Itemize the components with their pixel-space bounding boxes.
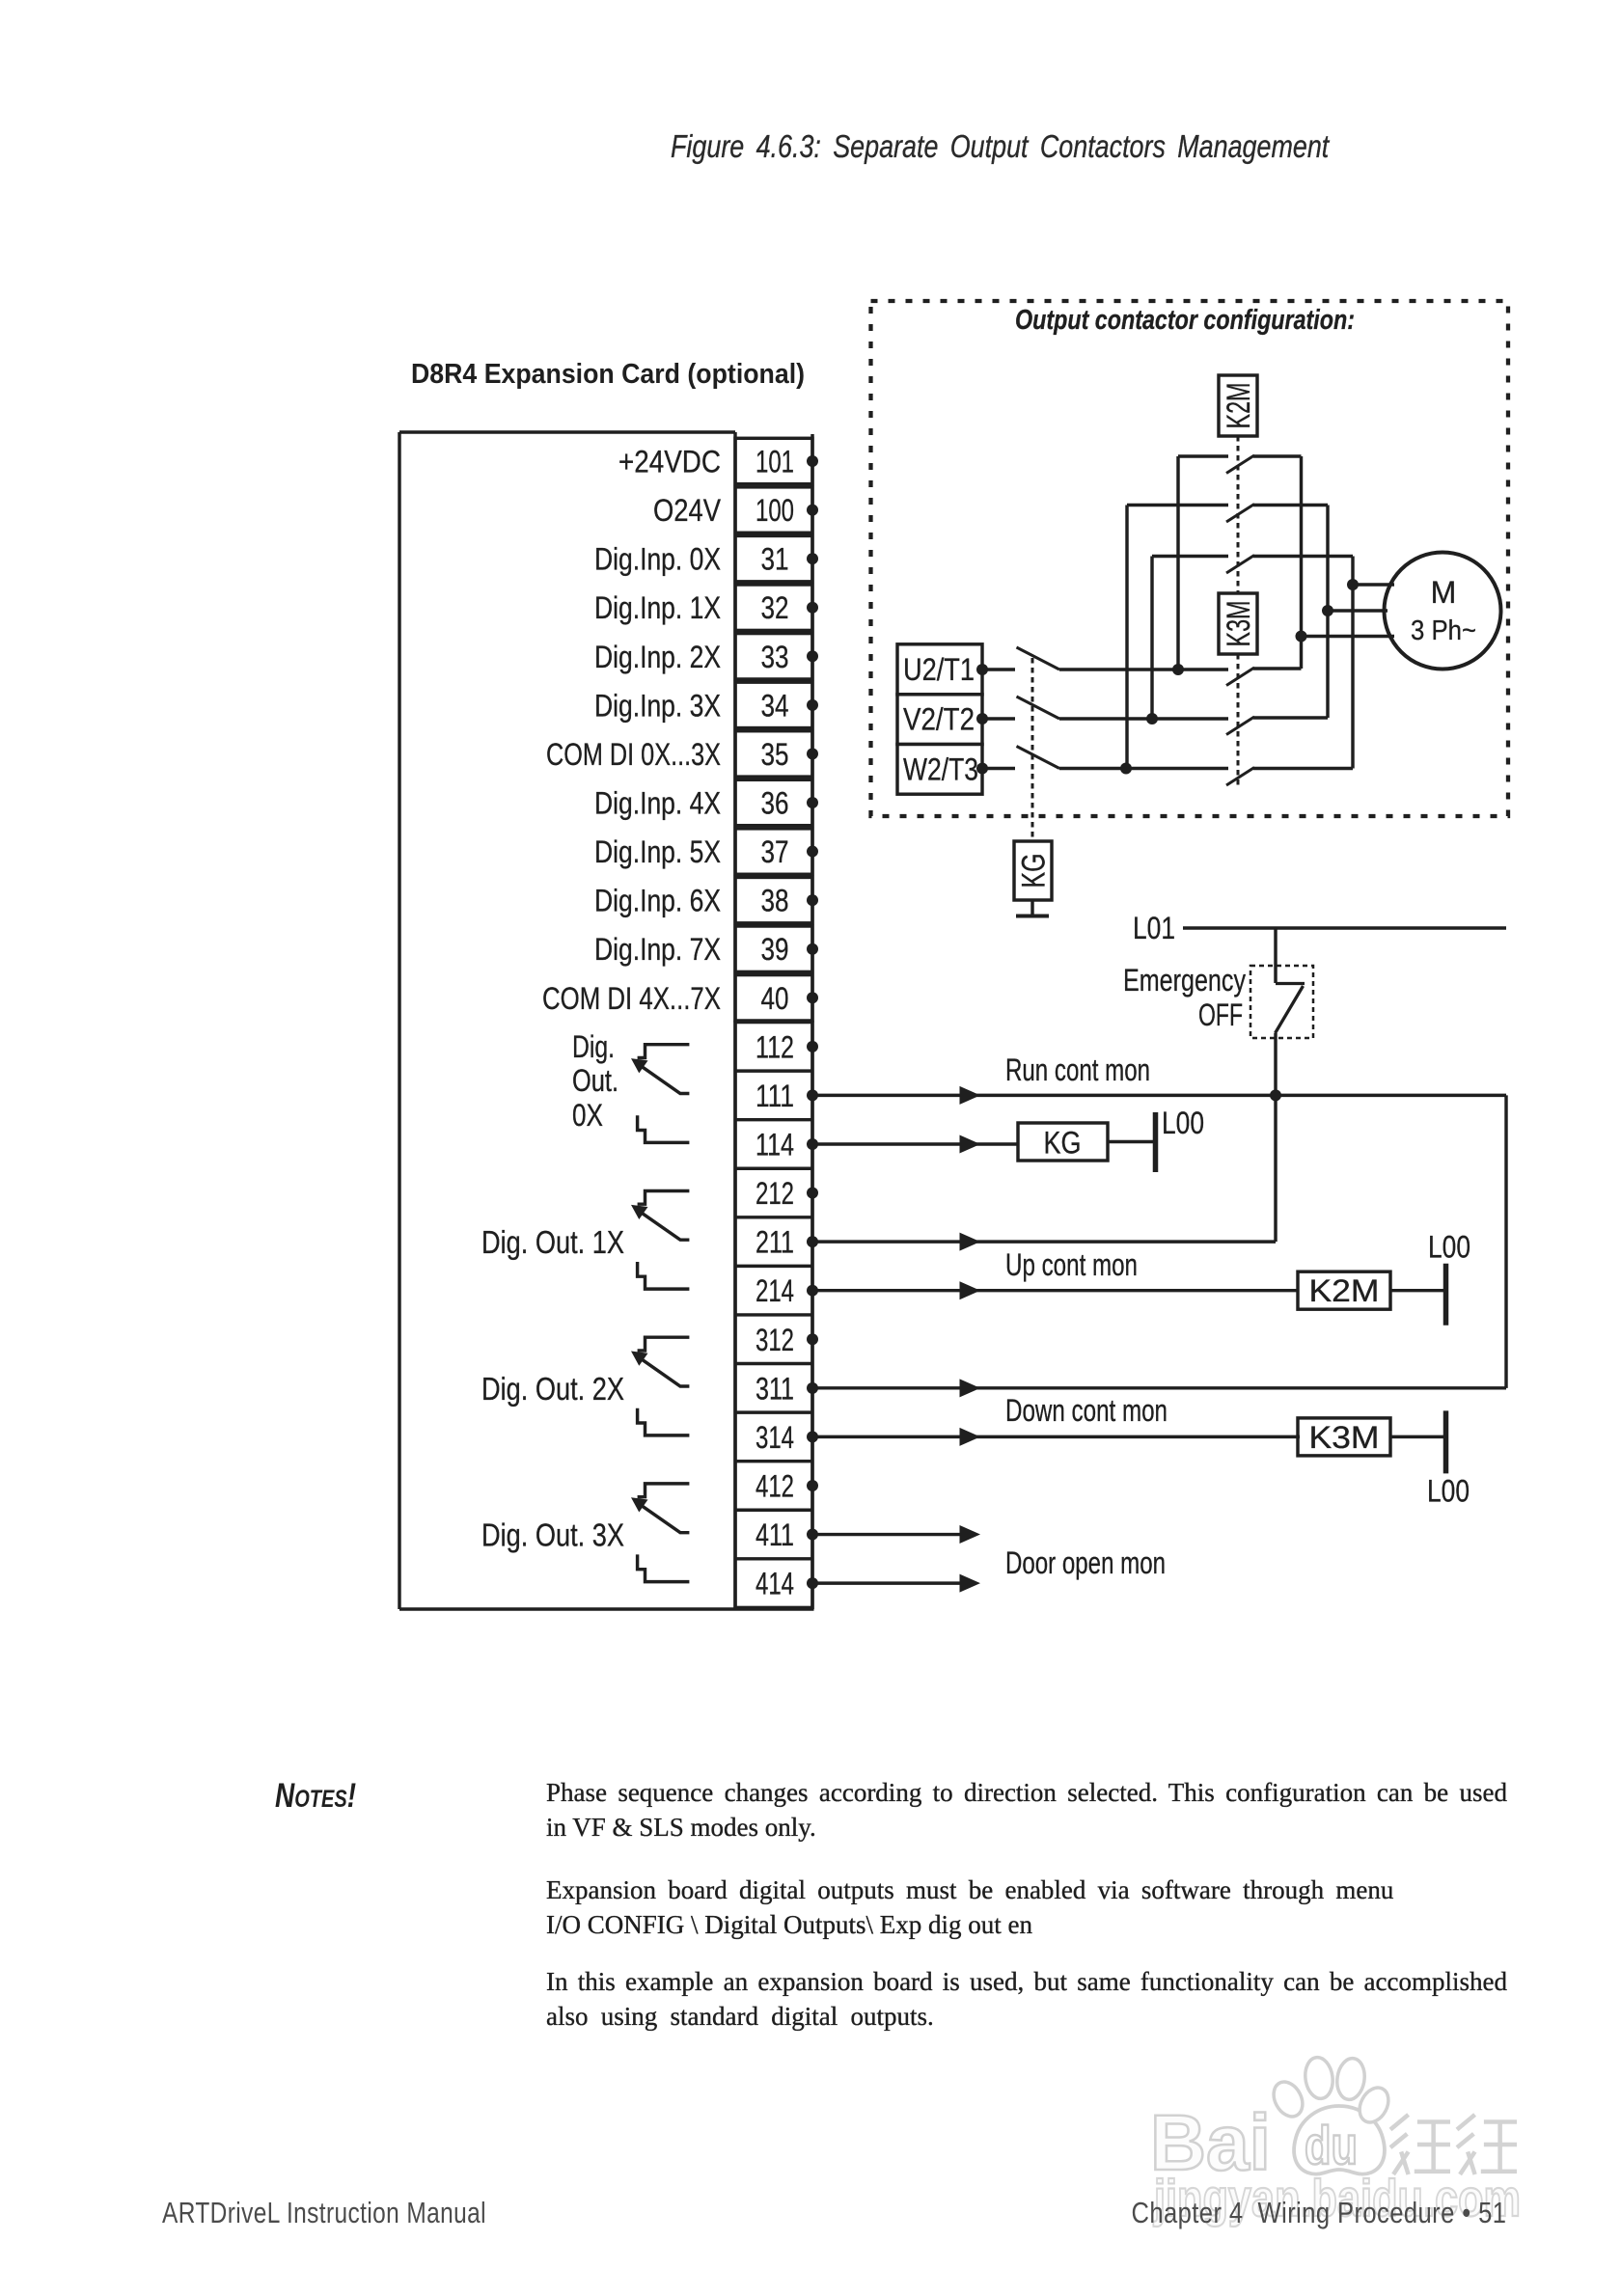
- svg-text:Down cont mon: Down cont mon: [1005, 1393, 1168, 1428]
- svg-text:M: M: [1431, 575, 1457, 610]
- svg-text:Emergency: Emergency: [1123, 963, 1246, 998]
- svg-text:K2M: K2M: [1309, 1273, 1380, 1308]
- svg-text:412: 412: [756, 1468, 794, 1503]
- svg-text:KG: KG: [1044, 1125, 1082, 1160]
- svg-text:Dig.Inp. 2X: Dig.Inp. 2X: [594, 640, 721, 674]
- svg-text:U2/T1: U2/T1: [903, 652, 975, 687]
- svg-text:du: du: [1305, 2115, 1358, 2175]
- svg-text:33: 33: [761, 640, 789, 674]
- svg-text:L00: L00: [1428, 1230, 1470, 1265]
- svg-text:3 Ph~: 3 Ph~: [1411, 615, 1476, 646]
- svg-text:414: 414: [756, 1567, 794, 1601]
- svg-text:Run cont mon: Run cont mon: [1005, 1052, 1150, 1087]
- svg-text:Out.: Out.: [572, 1063, 618, 1098]
- svg-text:COM DI 4X...7X: COM DI 4X...7X: [542, 981, 721, 1016]
- svg-text:40: 40: [761, 981, 789, 1016]
- svg-text:32: 32: [761, 590, 789, 625]
- svg-text:Door open mon: Door open mon: [1005, 1545, 1166, 1580]
- svg-text:Dig.Inp. 0X: Dig.Inp. 0X: [594, 542, 721, 577]
- svg-text:L00: L00: [1427, 1473, 1470, 1508]
- svg-text:L01: L01: [1133, 911, 1175, 945]
- svg-text:39: 39: [761, 932, 789, 967]
- svg-text:Dig.Inp. 5X: Dig.Inp. 5X: [594, 834, 721, 869]
- svg-text:101: 101: [756, 445, 794, 479]
- svg-text:31: 31: [761, 542, 789, 577]
- svg-text:O24V: O24V: [653, 493, 722, 528]
- svg-text:38: 38: [761, 884, 789, 918]
- svg-text:214: 214: [756, 1273, 794, 1308]
- svg-text:Dig.Inp. 4X: Dig.Inp. 4X: [594, 785, 721, 820]
- svg-text:Dig. Out. 3X: Dig. Out. 3X: [481, 1517, 624, 1553]
- svg-text:37: 37: [761, 834, 789, 869]
- svg-text:OFF: OFF: [1198, 998, 1243, 1032]
- svg-text:Dig.Inp. 1X: Dig.Inp. 1X: [594, 590, 721, 625]
- svg-text:K3M: K3M: [1309, 1420, 1380, 1455]
- svg-text:L00: L00: [1162, 1106, 1204, 1140]
- svg-text:V2/T2: V2/T2: [903, 702, 975, 737]
- svg-text:Dig. Out. 2X: Dig. Out. 2X: [481, 1371, 624, 1407]
- svg-text:+24VDC: +24VDC: [618, 445, 721, 479]
- svg-text:W2/T3: W2/T3: [903, 752, 978, 787]
- svg-text:100: 100: [756, 493, 794, 528]
- svg-text:Up cont mon: Up cont mon: [1005, 1247, 1138, 1282]
- svg-text:35: 35: [761, 737, 789, 772]
- svg-text:COM DI 0X...3X: COM DI 0X...3X: [546, 737, 721, 772]
- svg-text:0X: 0X: [572, 1098, 603, 1133]
- svg-text:Output contactor configuration: Output contactor configuration:: [1015, 305, 1355, 336]
- svg-text:Dig.Inp. 3X: Dig.Inp. 3X: [594, 688, 721, 723]
- svg-text:411: 411: [756, 1517, 794, 1552]
- svg-text:K3M: K3M: [1221, 601, 1257, 647]
- svg-text:212: 212: [756, 1176, 794, 1211]
- svg-text:K2M: K2M: [1221, 383, 1257, 429]
- svg-text:36: 36: [761, 785, 789, 820]
- svg-text:34: 34: [761, 688, 789, 723]
- svg-text:Dig. Out. 1X: Dig. Out. 1X: [481, 1224, 624, 1260]
- svg-text:312: 312: [756, 1323, 794, 1357]
- svg-text:Dig.Inp. 7X: Dig.Inp. 7X: [594, 932, 721, 967]
- svg-text:Dig.: Dig.: [572, 1029, 615, 1064]
- svg-text:111: 111: [756, 1079, 794, 1113]
- svg-text:112: 112: [756, 1029, 794, 1064]
- svg-text:Dig.Inp. 6X: Dig.Inp. 6X: [594, 884, 721, 918]
- svg-text:KG: KG: [1016, 854, 1053, 888]
- svg-text:114: 114: [756, 1127, 794, 1162]
- svg-text:211: 211: [756, 1225, 794, 1260]
- svg-text:314: 314: [756, 1420, 794, 1455]
- svg-text:311: 311: [756, 1371, 794, 1406]
